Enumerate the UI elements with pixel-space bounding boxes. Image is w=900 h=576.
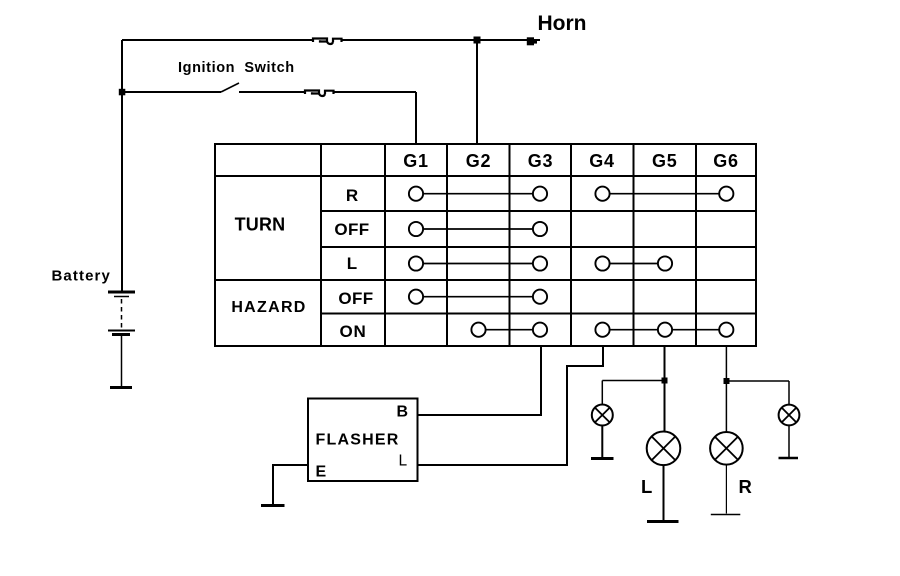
svg-text:FLASHER: FLASHER xyxy=(316,432,400,449)
svg-text:G6: G6 xyxy=(713,151,739,171)
svg-text:HAZARD: HAZARD xyxy=(231,299,306,316)
svg-text:R: R xyxy=(739,476,752,497)
svg-text:L: L xyxy=(641,476,652,497)
svg-text:L: L xyxy=(347,254,357,273)
svg-text:Horn: Horn xyxy=(538,12,587,35)
svg-text:Battery: Battery xyxy=(52,268,111,285)
svg-text:E: E xyxy=(316,464,327,481)
svg-text:Ignition Switch: Ignition Switch xyxy=(178,60,295,76)
svg-text:ON: ON xyxy=(339,322,366,341)
svg-text:G2: G2 xyxy=(466,151,492,171)
svg-text:G5: G5 xyxy=(652,151,678,171)
svg-text:OFF: OFF xyxy=(334,220,369,239)
svg-text:G4: G4 xyxy=(589,151,615,171)
svg-text:TURN: TURN xyxy=(235,215,286,235)
svg-text:OFF: OFF xyxy=(338,289,373,308)
svg-text:L: L xyxy=(399,453,408,470)
svg-text:B: B xyxy=(397,404,409,421)
svg-text:G1: G1 xyxy=(403,151,429,171)
svg-text:R: R xyxy=(346,186,358,205)
svg-text:G3: G3 xyxy=(528,151,554,171)
